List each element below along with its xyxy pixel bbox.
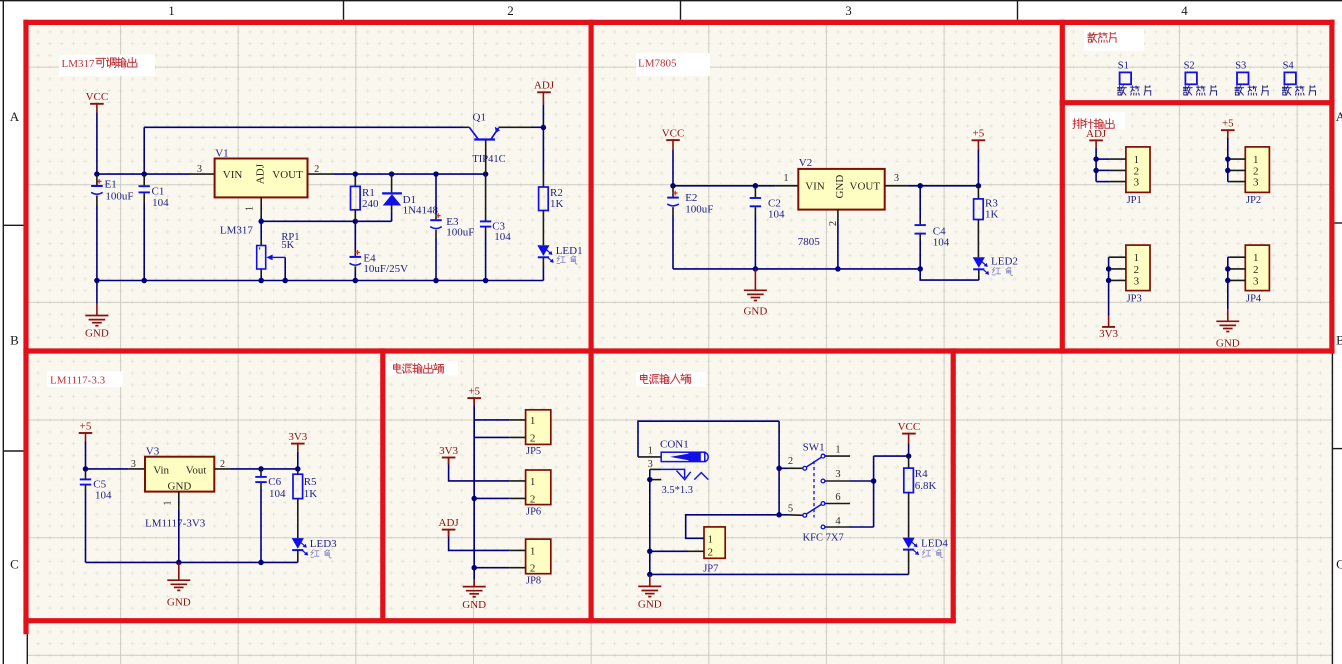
SW1 lever bottom [806,504,821,514]
CON1 pin3 lever [650,468,661,470]
capacitor E3 100uF [435,174,437,214]
svg-text:V1: V1 [215,147,228,159]
svg-text:+5: +5 [468,386,480,398]
power ADJ (top right) [537,91,551,93]
svg-text:JP4: JP4 [1246,293,1262,304]
power ADJ (JP1) [1089,139,1103,141]
svg-text:3V3: 3V3 [439,445,458,457]
svg-text:S3: S3 [1235,60,1246,71]
svg-text:C1: C1 [152,186,165,198]
wire top run to Q1 collector [144,126,462,128]
regulator V1 LM317 [215,159,308,198]
wire bottom rail (LM317) [97,280,544,282]
wire input rail (LM1117) [86,468,129,470]
capacitor C2 104 [754,186,756,197]
svg-text:104: 104 [95,490,112,502]
svg-text:ADJ: ADJ [255,163,267,184]
svg-text:3.5*1.3: 3.5*1.3 [662,485,694,496]
svg-text:2: 2 [314,164,319,175]
pin 1 stub V2 [776,185,799,187]
wire jog to LED2 [920,269,979,280]
ground GND (input) [649,574,651,586]
svg-text:1: 1 [530,415,536,427]
svg-text:ADJ: ADJ [439,517,460,529]
svg-text:4: 4 [1181,3,1188,18]
wire JP4 to GND [1227,257,1229,309]
section heatsink [1084,29,1144,51]
wire ADJ to JP8 pin1 [449,530,510,551]
svg-text:B: B [10,333,19,348]
pin stub Q1 collector [463,126,470,128]
svg-text:VCC: VCC [86,91,109,103]
svg-text:V3: V3 [146,445,160,457]
wire bottom rail (7805) [673,268,920,270]
resistor R3 1K [977,186,979,199]
svg-text:2: 2 [1134,264,1140,276]
section pin header output [1070,112,1125,130]
ground GND (JP4) [1227,309,1229,321]
svg-text:GND: GND [85,328,109,340]
node E3 top [433,171,439,177]
svg-text:104: 104 [933,237,950,249]
svg-text:2: 2 [530,493,536,505]
node JP1 pins [1093,156,1099,162]
svg-text:A: A [1336,109,1342,124]
svg-text:GND: GND [1216,338,1240,350]
svg-text:ADJ: ADJ [534,80,555,92]
wire bottom rail (LM1117) [86,561,298,563]
svg-text:3V3: 3V3 [288,431,307,443]
svg-text:1: 1 [168,3,175,18]
ground GND (LM1117) [178,562,180,580]
svg-text:VIN: VIN [223,169,243,181]
svg-text:+5: +5 [973,128,985,140]
connector JP4 [1245,245,1269,291]
ground GND (7805) [754,269,756,290]
power 3V3 (bottom) [1108,316,1110,327]
svg-text:VCC: VCC [898,421,921,433]
wire ADJ to JP1 [1095,148,1097,182]
wire JP5 pin2 [474,436,509,438]
svg-text:100uF: 100uF [105,190,133,202]
svg-text:3: 3 [1134,177,1140,189]
svg-text:1: 1 [1253,154,1259,166]
svg-text:5: 5 [788,504,793,515]
svg-text:+5: +5 [80,420,92,432]
svg-text:C: C [10,557,19,572]
section LM7805 [636,53,710,76]
pin 3 stub V2 [885,185,908,187]
resistor R5 1K [297,469,299,474]
svg-text:3: 3 [1253,275,1259,287]
node Q1 base / C3 [483,171,489,177]
regulator V2 7805 [798,169,884,210]
svg-text:JP2: JP2 [1246,195,1261,206]
svg-text:Vout: Vout [186,464,207,476]
svg-text:TIP41C: TIP41C [472,154,505,165]
svg-text:R4: R4 [915,468,928,480]
section power input [636,372,706,387]
svg-text:1: 1 [163,501,174,506]
svg-text:LED1: LED1 [556,245,583,257]
svg-text:E1: E1 [105,178,117,190]
svg-text:GND: GND [462,599,486,611]
LED2 red [973,257,985,268]
svg-text:2: 2 [1253,264,1259,276]
SW1 lever top [806,457,821,467]
svg-text:ADJ: ADJ [1086,128,1107,140]
wire down to R2 [542,127,544,172]
section LM1117-3.3 [47,372,123,388]
wire JP5 pin1 [474,419,509,421]
svg-text:VCC: VCC [662,128,685,140]
svg-text:1: 1 [1134,252,1140,264]
svg-text:C6: C6 [268,476,281,488]
svg-text:V2: V2 [799,157,812,169]
wire CON1 ground column [649,469,651,574]
node Q1 emitter / R2 column [541,125,547,130]
svg-text:R5: R5 [304,476,317,488]
svg-text:1: 1 [1134,154,1140,166]
svg-text:LED4: LED4 [921,537,948,549]
LED3 red [292,538,304,549]
svg-text:LM7805: LM7805 [638,58,677,70]
power VCC (7805) [666,139,680,141]
svg-text:100uF: 100uF [446,227,474,239]
svg-text:C: C [1336,557,1342,572]
svg-text:7805: 7805 [798,236,821,248]
power +5 (7805) [972,139,986,141]
wire JP7 pin1 to switch pole [686,515,779,539]
node C2 top [753,183,759,189]
pin 3 stub V3 [129,468,145,470]
svg-text:+5: +5 [1222,118,1234,130]
svg-text:KFC 7X7: KFC 7X7 [803,532,844,543]
capacitor C6 104 [260,469,262,476]
wire C1 column up to top wire [143,127,145,174]
node R1 top [353,171,359,177]
CON1 pin2 contact [650,479,661,481]
svg-text:2: 2 [1134,165,1140,177]
svg-text:GND: GND [743,306,767,318]
wire JP7 pin2 to ground [650,550,688,552]
connector JP1 [1126,147,1150,193]
wire output rail (LM1117) [231,468,298,470]
wire top loop [638,421,779,457]
svg-text:3: 3 [1253,177,1259,189]
svg-text:1: 1 [835,445,840,456]
power 3V3 (LM1117) [291,443,305,445]
svg-text:240: 240 [362,198,379,210]
svg-text:10uF/25V: 10uF/25V [363,263,408,275]
LED4 red [903,538,915,549]
svg-text:104: 104 [269,488,286,500]
svg-text:2: 2 [788,456,793,467]
svg-text:2: 2 [507,3,514,18]
connector JP2 [1245,147,1269,193]
svg-text:100uF: 100uF [685,203,713,215]
svg-text:6.8K: 6.8K [915,480,937,492]
pin 2 stub V3 [214,468,230,470]
svg-text:E2: E2 [685,192,697,204]
svg-text:LM317: LM317 [220,225,254,237]
svg-text:GND: GND [168,480,192,492]
svg-text:3V3: 3V3 [1099,328,1118,340]
ground GND (LM317) [96,281,98,304]
svg-text:5K: 5K [281,240,294,251]
svg-text:3: 3 [197,164,202,175]
resistor R2 1K [539,187,549,211]
LED1 red [537,245,549,256]
svg-text:1: 1 [1253,252,1259,264]
wire VCC to input rail [96,113,98,175]
svg-text:Vin: Vin [153,464,169,476]
pin 2 stub V2 (GND) [837,210,839,223]
svg-text:3: 3 [845,3,852,18]
title pin header output [1073,119,1083,129]
svg-text:1N4148: 1N4148 [403,205,439,217]
svg-text:104: 104 [494,231,511,243]
capacitor C1 104 [139,185,150,187]
section LM317 adjustable output [59,55,155,77]
svg-text:S1: S1 [1118,60,1129,71]
svg-text:JP1: JP1 [1127,195,1142,206]
svg-text:SW1: SW1 [803,442,825,454]
svg-text:3: 3 [894,173,899,184]
node C4 top [917,183,923,189]
node D1 top [389,171,395,177]
resistor R1 240 [354,174,356,186]
svg-text:S2: S2 [1184,60,1195,71]
svg-text:S4: S4 [1283,60,1295,71]
capacitor E4 10uF/25V [354,221,356,250]
capacitor E1 100uF [91,185,103,187]
svg-text:1K: 1K [985,209,999,221]
resistor R4 6.8K [908,456,910,468]
svg-text:JP3: JP3 [1127,293,1142,304]
svg-text:1: 1 [245,206,256,211]
title power output [393,364,401,374]
node rail junctions [94,278,100,284]
svg-text:CON1: CON1 [660,439,689,451]
power VCC (LM317) [90,103,104,105]
svg-text:3: 3 [648,459,653,470]
svg-text:1K: 1K [550,198,564,210]
svg-text:B: B [1336,333,1342,348]
wire input rail [97,173,190,175]
wire output rail (7805) [907,185,978,187]
SW1 link dashed [813,461,815,518]
wire main vertical (output hdr) [473,398,475,579]
svg-text:JP7: JP7 [703,563,718,574]
wire JP8 pin2 [474,567,509,569]
wire switch pole column [778,421,780,515]
svg-text:104: 104 [152,197,169,209]
svg-text:3: 3 [835,469,840,480]
title heatsink [1088,33,1097,43]
connector JP3 [1126,245,1150,291]
svg-text:LM317: LM317 [62,58,96,70]
svg-text:LED3: LED3 [310,538,337,550]
svg-text:1: 1 [530,545,536,557]
svg-text:A: A [10,109,20,124]
capacitor C5 104 [85,469,87,479]
power 3V3 (JP6) [442,457,456,459]
svg-text:2: 2 [1253,165,1259,177]
svg-text:VOUT: VOUT [272,169,303,181]
node ADJ/RP1 junction [258,219,264,225]
svg-text:104: 104 [768,209,785,221]
capacitor C4 104 [919,186,921,219]
node E1/rail junction [94,171,100,177]
svg-text:GND: GND [167,597,191,609]
regulator V3 LM1117-3V3 [145,457,214,492]
wire JP6 pin2 [474,497,509,499]
node R3 top [976,183,982,189]
svg-text:LED2: LED2 [991,255,1018,267]
power +5 (JP5) [467,397,481,399]
node R5 top [295,466,301,472]
CON1 barrel [661,452,705,461]
SW1 throw stubs [825,455,850,457]
diode D1 1N4148 [391,174,393,192]
svg-text:3: 3 [1134,275,1140,287]
svg-text:GND: GND [834,175,846,199]
power ADJ (JP8) [442,529,456,531]
pin 1 stub V3 (GND) [178,492,180,510]
svg-text:1: 1 [784,173,789,184]
svg-text:1: 1 [708,533,714,545]
connector JP5 [526,410,551,445]
node R1 bottom / E4 [353,219,359,225]
svg-text:1: 1 [530,476,536,488]
ground GND (output hdr) [473,580,475,587]
svg-text:Q1: Q1 [473,112,486,124]
potentiometer RP1 5K [260,221,262,239]
svg-text:6: 6 [835,492,840,503]
svg-text:JP8: JP8 [526,575,541,586]
wire throws 3-4 common [850,480,874,482]
svg-text:3: 3 [131,459,136,470]
connector JP8 [526,539,551,574]
svg-text:LM1117-3.3: LM1117-3.3 [50,375,106,387]
pin 3 stub V1 [190,173,215,175]
power +5 (LM1117) [79,432,93,434]
transistor Q1 TIP41C [474,138,495,140]
node C1/rail junction [141,171,147,177]
capacitor E2 100uF [672,186,674,197]
svg-text:1: 1 [648,445,653,456]
svg-text:VOUT: VOUT [850,180,881,192]
sheet margin strips [0,0,27,664]
wire bottom rail (input) [650,573,909,575]
section power output [388,361,458,376]
CON1 pin1 stub [638,456,661,458]
svg-text:2: 2 [530,563,536,575]
svg-text:JP5: JP5 [526,446,541,457]
title power input [640,374,648,384]
pin 1 stub V1 (ADJ) [260,197,262,216]
svg-text:VIN: VIN [805,180,825,192]
svg-text:2: 2 [220,459,225,470]
wire ADJ rail [261,220,391,222]
svg-text:2: 2 [530,432,536,444]
svg-text:1K: 1K [304,488,318,500]
pin 2 stub V1 (VOUT) [308,173,334,175]
wire VOUT rail [333,173,485,175]
svg-text:4: 4 [835,516,841,527]
node C6 top [258,466,264,472]
power +5 (JP2) [1221,129,1235,131]
power VCC (input) [902,433,916,435]
wire JP3 to 3V3 [1108,257,1110,316]
connector JP6 [526,470,551,505]
wire 3V3 to JP6 pin1 [449,458,510,481]
svg-text:JP6: JP6 [526,506,541,517]
wire input rail (7805) [673,185,776,187]
capacitor C3 104 [485,174,487,220]
svg-text:2: 2 [708,546,714,558]
svg-text:LM1117-3V3: LM1117-3V3 [145,518,206,530]
connector JP7 [704,527,725,558]
svg-text:GND: GND [638,599,662,611]
